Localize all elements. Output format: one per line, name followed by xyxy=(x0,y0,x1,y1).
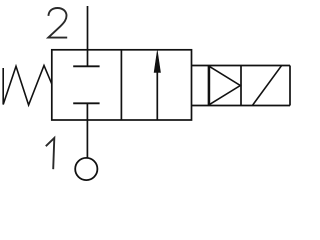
flow path arrowhead (position 2) xyxy=(154,51,160,73)
wire: port 1 line xyxy=(86,103,88,158)
pilot triangle xyxy=(209,66,240,104)
valve body outline xyxy=(52,50,192,120)
port label 1 xyxy=(46,138,55,169)
wire: port 2 line xyxy=(87,6,89,66)
flow path arrow shaft (position 2) xyxy=(156,60,158,120)
blocked port bar (top, position 1) xyxy=(73,65,99,67)
solenoid divider xyxy=(240,66,242,106)
solenoid coil diagonal xyxy=(253,66,282,106)
solenoid housing bottom edge xyxy=(192,105,291,107)
port label 2 xyxy=(48,8,67,38)
valve position divider xyxy=(120,50,122,120)
blocked port bar (bottom, position 1) xyxy=(73,102,99,104)
return spring xyxy=(3,66,52,106)
solenoid housing top edge xyxy=(192,65,291,67)
solenoid housing left edge xyxy=(208,66,210,106)
solenoid housing right edge xyxy=(289,66,291,106)
port 1 connection circle xyxy=(75,158,97,180)
